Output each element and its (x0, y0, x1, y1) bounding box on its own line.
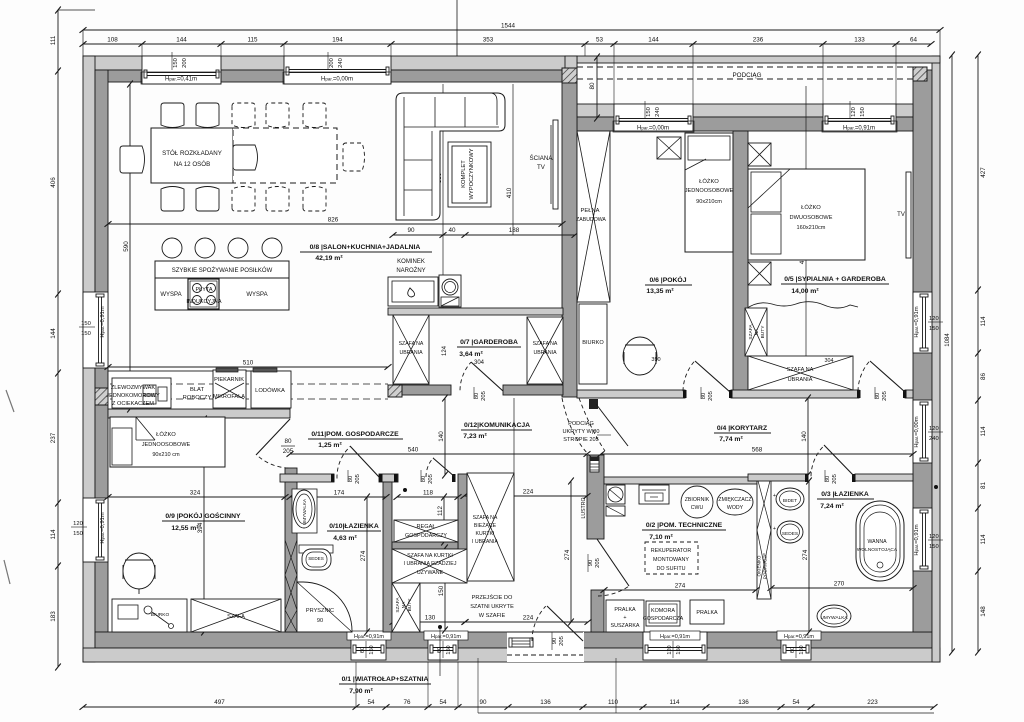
window 60/150 bottom wall wiatrolap, Hpar=0.91m (428, 632, 458, 660)
wall under rooms 0-6 and 0-5 (corridor north wall) left part (577, 390, 685, 398)
svg-text:112: 112 (437, 505, 444, 516)
svg-text:148: 148 (980, 606, 987, 617)
nightstands room 0/5 (748, 143, 771, 166)
roofed recess outline top-right (podcien) (577, 56, 940, 63)
svg-text:TV: TV (897, 212, 905, 218)
svg-text:NA: NA (754, 328, 760, 335)
garderoba 0/7 bottom wall left piece (402, 385, 451, 395)
dim 324 room 0/9 width (108, 496, 285, 498)
svg-text:12,55 m²: 12,55 m² (171, 525, 199, 532)
entrance door opening (507, 632, 584, 662)
sofa L-shaped (396, 93, 505, 220)
door 80/205 bathroom 0/3 (824, 445, 855, 477)
recuperator dashed box (645, 542, 698, 574)
svg-text:STROPIE 205: STROPIE 205 (563, 437, 598, 443)
svg-text:3,64 m²: 3,64 m² (459, 351, 483, 358)
svg-text:BIURKO: BIURKO (582, 340, 604, 346)
window 120/240 right wall korytarz, Hpar=0.00m (913, 400, 932, 463)
svg-text:GOSPODARCZA: GOSPODARCZA (643, 616, 684, 622)
svg-text:133: 133 (854, 37, 865, 44)
svg-text:150: 150 (173, 58, 179, 68)
svg-text:120: 120 (929, 426, 939, 432)
svg-text:64: 64 (910, 37, 918, 44)
wall 0/1 vs 0/2 lower part (591, 590, 604, 632)
svg-text:PEŁNA: PEŁNA (580, 208, 599, 214)
dim 274 wiatrolap height (570, 481, 572, 622)
svg-text:0/10|ŁAZIENKA: 0/10|ŁAZIENKA (329, 523, 379, 530)
svg-text:90: 90 (407, 227, 415, 234)
window 150/240 of room 0/6, Hpar=0.00m (614, 104, 693, 131)
svg-text:111: 111 (50, 35, 57, 45)
dim 80 of recess depth (596, 57, 598, 118)
svg-text:UBRANIA: UBRANIA (788, 377, 813, 383)
svg-text:PRALKA: PRALKA (614, 607, 636, 613)
svg-text:406: 406 (50, 177, 57, 188)
svg-text:205: 205 (481, 391, 487, 401)
svg-text:274: 274 (360, 550, 367, 561)
wardrobe left SZAFA NA UBRANIA 0/7 (393, 315, 429, 384)
svg-text:150: 150 (73, 531, 83, 537)
garderoba 0/7 bottom wall right piece (503, 385, 563, 395)
svg-text:114: 114 (980, 426, 987, 437)
svg-text:SUSZARKA: SUSZARKA (610, 623, 639, 629)
0/3 north wall left piece (748, 474, 808, 481)
tall wardrobe with hidden passage (467, 473, 514, 581)
svg-text:I UBRANIA RZADZIEJ: I UBRANIA RZADZIEJ (404, 561, 457, 567)
wardrobe SZAFA room 0/9 (191, 599, 281, 632)
svg-text:BUTY: BUTY (407, 598, 413, 612)
wall 0/9 vs 0/10 (285, 468, 297, 632)
svg-text:GOSPODARCZY: GOSPODARCZY (405, 533, 447, 539)
svg-text:114: 114 (669, 699, 680, 706)
garderoba 0/7 top wall (388, 308, 563, 315)
svg-text:0/5 |SYPIALNIA + GARDEROBA: 0/5 |SYPIALNIA + GARDEROBA (784, 276, 886, 283)
svg-text:JEDNOOSOBOWE: JEDNOOSOBOWE (685, 188, 734, 194)
svg-text:40: 40 (448, 227, 456, 234)
svg-text:81: 81 (980, 482, 987, 490)
svg-text:INDUKCYJNA: INDUKCYJNA (186, 299, 221, 305)
svg-text:150: 150 (929, 544, 939, 550)
exterior wall: bottom (dark band) (95, 632, 932, 648)
closet 0/11 bottom wall (392, 542, 458, 549)
built-in wardrobe PELNA ZABUDOWA (577, 131, 610, 302)
dim 130 wiatrolap (393, 621, 465, 623)
chair middle at table edge (233, 145, 258, 170)
svg-text:54: 54 (367, 699, 375, 706)
svg-text:W SZAFIE: W SZAFIE (479, 613, 506, 619)
svg-text:1084: 1084 (945, 333, 951, 347)
svg-text:0/8 |SALON+KUCHNIA+JADALNIA: 0/8 |SALON+KUCHNIA+JADALNIA (310, 244, 421, 251)
chairs top row (2 solid, 3 dashed) (161, 103, 184, 128)
entrance door leaf (547, 606, 583, 641)
dim 274 bathroom 0/3 height (808, 481, 810, 632)
svg-text:136: 136 (738, 699, 749, 706)
window 60/150 bottom wall bathroom 0/3, Hpar=0.91m (781, 632, 811, 660)
curtain garderoba 0/5 (746, 302, 858, 309)
kitchen island (155, 261, 289, 310)
svg-text:SZAFA NA: SZAFA NA (787, 367, 814, 373)
svg-text:LODÓWKA: LODÓWKA (255, 387, 285, 394)
office chair room 0/6 (623, 337, 657, 375)
svg-text:124: 124 (442, 345, 448, 356)
svg-text:497: 497 (214, 699, 225, 706)
svg-text:568: 568 (752, 447, 763, 454)
svg-text:MIKROFALA: MIKROFALA (213, 394, 245, 400)
window 150/200 top wall, Hpar=0.41m (142, 56, 221, 84)
washbasin UMYWALKA 0/3 (817, 605, 851, 627)
svg-text:ZBIORNIK: ZBIORNIK (685, 497, 710, 503)
svg-text:540: 540 (408, 447, 419, 454)
svg-text:80: 80 (348, 476, 354, 482)
svg-text:ŁÓŻKO: ŁÓŻKO (801, 204, 821, 211)
svg-text:ZMIĘKCZACZ: ZMIĘKCZACZ (718, 497, 751, 503)
svg-text:UBRANIA: UBRANIA (399, 350, 423, 356)
svg-text:150: 150 (799, 645, 805, 654)
svg-text:BUTY: BUTY (760, 325, 766, 339)
svg-text:304: 304 (825, 358, 834, 364)
door 80/205 closet 0/11 (433, 458, 455, 477)
exterior wall: left (dark band) (95, 70, 108, 632)
svg-text:120: 120 (667, 645, 673, 654)
svg-text:KOMPLET: KOMPLET (461, 160, 467, 188)
svg-text:205: 205 (559, 636, 565, 646)
door 90/205 pom. techniczne 0/2 (597, 539, 629, 586)
svg-text:BIURKO: BIURKO (151, 612, 170, 618)
svg-text:223: 223 (867, 699, 878, 706)
svg-text:4,63 m²: 4,63 m² (333, 535, 357, 542)
upper cabinets dashed (110, 383, 388, 385)
dim 174 room 0/10 width (290, 496, 386, 498)
svg-text:144: 144 (648, 37, 659, 44)
dim 826 living room width (108, 223, 562, 225)
exterior wall: right (dark band) (913, 70, 932, 632)
single bed room 0/6 (685, 133, 733, 252)
svg-text:274: 274 (802, 549, 809, 560)
svg-text:UBRANIA: UBRANIA (533, 350, 557, 356)
svg-text:SZATNI UKRYTE: SZATNI UKRYTE (470, 604, 514, 610)
svg-text:ŁÓŻKO: ŁÓŻKO (699, 178, 719, 185)
svg-text:WOLNOSTOJĄCA: WOLNOSTOJĄCA (857, 547, 898, 553)
svg-text:7,90 m²: 7,90 m² (349, 688, 373, 695)
wall under rooms (corridor north wall) middle part (731, 390, 859, 398)
top segmented dims (83, 43, 931, 45)
svg-text:390: 390 (651, 357, 660, 363)
0/3 north wall right piece (855, 474, 913, 481)
svg-text:194: 194 (332, 37, 343, 44)
svg-text:ROBOCZY: ROBOCZY (183, 395, 212, 401)
water softener ZMIEKCZACZ WODY (717, 489, 753, 515)
closet 0/11 right wall (458, 474, 467, 581)
plumbing shaft wall 0/2 vs 0/3 (757, 477, 771, 599)
dim 350 vertical sofa (442, 84, 444, 308)
svg-text:NA: NA (401, 601, 407, 608)
svg-text:+: + (623, 615, 626, 621)
svg-text:Z OCIEKACZEM: Z OCIEKACZEM (112, 401, 154, 407)
svg-text:MONTOWANY: MONTOWANY (653, 557, 689, 563)
chair left end (120, 146, 145, 173)
svg-text:427: 427 (980, 167, 987, 178)
svg-text:140: 140 (438, 431, 445, 442)
svg-text:PODCIĄG: PODCIĄG (568, 421, 594, 427)
svg-text:7,23 m²: 7,23 m² (463, 433, 487, 440)
svg-text:80: 80 (421, 476, 427, 482)
svg-text:BIEŻĄCE: BIEŻĄCE (474, 522, 497, 529)
svg-text:PRZEJŚCIE DO: PRZEJŚCIE DO (472, 593, 513, 601)
svg-text:240: 240 (929, 436, 939, 442)
wall under rooms (corridor north wall) right part (905, 390, 913, 398)
oven microwave column (213, 370, 246, 408)
chimney shaft at living/0-6 wall top (562, 68, 577, 83)
svg-text:+: + (773, 526, 776, 532)
svg-text:150: 150 (929, 326, 939, 332)
left edge stray marks (6, 390, 14, 412)
svg-text:224: 224 (523, 489, 534, 496)
sink unit (112, 378, 171, 408)
door 80/205 kitchen to guest room 0/9 (256, 419, 290, 455)
svg-text:80: 80 (284, 438, 292, 445)
svg-text:OKIENKO: OKIENKO (757, 555, 762, 576)
kitchen south wall (108, 409, 290, 418)
svg-text:150: 150 (438, 585, 445, 596)
svg-text:SZAFA: SZAFA (748, 324, 754, 340)
svg-text:90: 90 (552, 638, 558, 644)
island stools (162, 238, 182, 258)
svg-text:SZAFA NA: SZAFA NA (473, 515, 498, 521)
svg-text:90: 90 (479, 699, 487, 706)
exterior wall: top-left section (light band) (83, 56, 577, 70)
svg-text:SEDES: SEDES (782, 531, 798, 537)
svg-text:590: 590 (123, 241, 130, 252)
svg-text:205: 205 (708, 391, 714, 401)
svg-text:REKUPERATOR: REKUPERATOR (651, 548, 692, 554)
door 80/205 bathroom 0/10 (350, 446, 379, 477)
0/2 north wall (604, 477, 757, 484)
dim 354 szafa przejscie (513, 398, 515, 581)
svg-text:353: 353 (483, 37, 494, 44)
svg-text:54: 54 (792, 699, 800, 706)
exterior wall: top-left section (dark band) (95, 70, 577, 82)
svg-text:7,24 m²: 7,24 m² (820, 503, 844, 510)
svg-text:PODCIĄG: PODCIĄG (732, 72, 761, 79)
kitchen counter line (108, 371, 290, 409)
svg-text:144: 144 (50, 328, 57, 339)
induction hob on island (188, 279, 219, 309)
svg-text:SZAFA: SZAFA (395, 597, 401, 613)
window 120/150 right wall room 0/5, Hpar=0.91m (913, 292, 932, 353)
svg-text:1544: 1544 (501, 23, 516, 30)
wall 0/1 vs 0/2 pom. techniczne upper part (587, 455, 604, 539)
svg-text:7,10 m²: 7,10 m² (649, 534, 673, 541)
svg-text:304: 304 (474, 360, 485, 366)
svg-text:826: 826 (328, 217, 339, 224)
svg-text:KURTKI: KURTKI (476, 531, 495, 537)
svg-text:WYPOCZYNKOWY: WYPOCZYNKOWY (469, 148, 475, 199)
double bed room 0/5 (748, 169, 865, 260)
left dim column (57, 10, 59, 667)
svg-text:1,25 m²: 1,25 m² (318, 442, 342, 449)
chairs bottom row (2 solid, 3 dashed) (161, 187, 184, 212)
beam dashed lines PODCIAG (577, 66, 913, 68)
svg-text:PRYSZNIC: PRYSZNIC (306, 608, 334, 614)
svg-text:140: 140 (801, 431, 808, 442)
svg-text:90: 90 (317, 618, 323, 624)
window 120/150 of room 0/5, Hpar=0.91m (823, 104, 896, 131)
stove next to fireplace (439, 275, 461, 307)
fridge (251, 371, 291, 408)
svg-text:324: 324 (190, 490, 201, 497)
svg-text:200: 200 (329, 58, 335, 68)
svg-text:WODY: WODY (727, 505, 744, 511)
svg-text:240: 240 (338, 58, 344, 68)
washer dryer column PRALKA+SUSZARKA (606, 600, 644, 632)
chimney shaft in right wall top (913, 67, 927, 81)
nightstand room 0/6 (657, 137, 681, 159)
svg-text:120: 120 (929, 534, 939, 540)
right overall dim 1084 (951, 55, 953, 652)
door 80/205 garderoba 0/7 (471, 362, 503, 391)
svg-text:80: 80 (825, 476, 831, 482)
svg-text:120: 120 (929, 316, 939, 322)
svg-text:UŻYWANE: UŻYWANE (417, 569, 444, 576)
svg-text:PRALKA: PRALKA (696, 610, 718, 616)
svg-text:0/3 |ŁAZIENKA: 0/3 |ŁAZIENKA (821, 491, 869, 498)
svg-text:SZYBKIE SPOŻYWANIE POSIŁKÓW: SZYBKIE SPOŻYWANIE POSIŁKÓW (172, 267, 273, 274)
svg-text:0/2 |POM. TECHNICZNE: 0/2 |POM. TECHNICZNE (646, 522, 723, 529)
device box 0/2 (639, 485, 669, 504)
svg-text:13,35 m²: 13,35 m² (646, 288, 674, 295)
svg-text:STÓŁ ROZKŁADANY: STÓŁ ROZKŁADANY (162, 150, 222, 157)
svg-text:130: 130 (425, 615, 436, 622)
svg-text:120: 120 (851, 107, 857, 117)
interior wall living/room 0-6 divider (562, 83, 577, 397)
svg-text:410: 410 (506, 187, 513, 198)
svg-text:200: 200 (182, 58, 188, 68)
svg-text:510: 510 (243, 360, 254, 367)
svg-text:NA 12 OSÓB: NA 12 OSÓB (174, 161, 210, 168)
svg-text:76: 76 (403, 699, 411, 706)
svg-text:PIEKARNIK: PIEKARNIK (214, 377, 244, 383)
dim 274 pom techniczne width (604, 589, 756, 591)
svg-text:174: 174 (334, 490, 345, 497)
svg-text:+: + (773, 493, 776, 499)
svg-text:UMYWALKA: UMYWALKA (302, 498, 307, 525)
svg-text:150: 150 (446, 645, 452, 654)
svg-text:53: 53 (596, 37, 604, 44)
dining table extension dashed (233, 128, 337, 183)
entrance door swing arc inside (532, 606, 546, 641)
wall 0/10 vs 0/1 wiatrolap (383, 482, 392, 632)
svg-text:SZAFA: SZAFA (227, 614, 245, 620)
svg-text:150: 150 (81, 321, 91, 327)
corridor beam columns and swing (589, 399, 598, 409)
svg-text:80: 80 (875, 393, 881, 399)
svg-text:14,00 m²: 14,00 m² (791, 288, 819, 295)
dim 458 vertical room 0/5 (805, 86, 807, 390)
svg-text:SZAFA NA KURTKI: SZAFA NA KURTKI (407, 553, 453, 559)
washbasin UMYWALKA 0/10 (292, 489, 317, 533)
svg-text:ŚCIANA: ŚCIANA (529, 154, 553, 162)
shaft X-pattern in 0/9-0/10 wall (285, 540, 297, 575)
dim 568 corridor 0/4 (601, 453, 913, 455)
window 120/150 left wall, Hpar=0.91m (83, 498, 108, 562)
dim 112 closet 0/11 height (443, 497, 445, 542)
svg-text:150: 150 (81, 331, 91, 337)
svg-text:136: 136 (540, 699, 551, 706)
window 120/150 right wall bathroom 0/3, Hpar=0.91m (913, 508, 932, 571)
freestanding bathtub WANNA WOLNOSTOJACA (856, 501, 904, 581)
svg-text:150: 150 (369, 645, 375, 654)
svg-text:NAROŻNY: NAROŻNY (396, 267, 425, 274)
svg-text:PODAWCZE: PODAWCZE (763, 553, 768, 579)
window 200/240 terrace door top wall, Hpar=0.00m (284, 56, 391, 84)
exterior wall: top of bedrooms section (dark band) (577, 117, 913, 131)
svg-text:274: 274 (675, 583, 686, 590)
svg-text:114: 114 (980, 316, 987, 327)
svg-text:60: 60 (790, 647, 796, 653)
svg-text:205: 205 (882, 391, 888, 401)
svg-text:108: 108 (107, 37, 118, 44)
svg-text:JEDNOKOMOROWY: JEDNOKOMOROWY (106, 393, 160, 399)
svg-text:115: 115 (247, 37, 258, 44)
hatched shaft at garderoba wall west end (388, 385, 402, 397)
dim 590 vertical kitchen (129, 84, 131, 409)
svg-text:UKRYTY W|80: UKRYTY W|80 (563, 429, 600, 435)
svg-text:80: 80 (474, 393, 480, 399)
dim 394 room 0/9 height (203, 419, 205, 632)
exterior wall: right (light band) (932, 56, 940, 662)
dim 118 closet 0/11 width (397, 496, 458, 498)
svg-text:KOMINEK: KOMINEK (397, 259, 425, 265)
svg-text:90x210 cm: 90x210 cm (152, 452, 180, 458)
svg-text:160x210cm: 160x210cm (797, 225, 826, 231)
dim 90/40/188 sofa (393, 234, 575, 236)
wardrobe 0/5 SZAFA NA UBRANIA (748, 356, 853, 390)
shower PRYSZNIC 90 (297, 582, 352, 632)
wall piece between 0/10 and 0/11 doors (379, 474, 398, 482)
svg-text:270: 270 (834, 581, 845, 588)
dim 510 kitchen counter (108, 366, 388, 368)
svg-text:150: 150 (676, 645, 682, 654)
desk BIURKO room 0/9 (112, 599, 187, 632)
small wall caps black (729, 390, 733, 398)
svg-text:240: 240 (655, 107, 661, 117)
svg-text:90: 90 (588, 560, 594, 566)
washer with cross 0/2 (606, 485, 625, 504)
coffee table KOMPLET WYPOCZYNKOWY (448, 142, 491, 207)
svg-text:REGAŁ: REGAŁ (417, 524, 436, 530)
svg-text:BIDET: BIDET (783, 498, 797, 504)
svg-text:0/11|POM. GOSPODARCZE: 0/11|POM. GOSPODARCZE (311, 431, 399, 438)
radiator symbol (590, 457, 599, 472)
svg-text:205: 205 (832, 474, 838, 484)
svg-text:LUSTRO: LUSTRO (581, 497, 587, 518)
svg-text:0/7 |GARDEROBA: 0/7 |GARDEROBA (460, 339, 518, 346)
svg-text:DWUOSOBOWE: DWUOSOBOWE (790, 215, 833, 221)
svg-text:90x210cm: 90x210cm (696, 199, 722, 205)
svg-text:I UBRANIA: I UBRANIA (472, 539, 498, 545)
svg-text:60: 60 (360, 647, 366, 653)
svg-text:54: 54 (439, 699, 447, 706)
svg-text:205: 205 (428, 474, 434, 484)
survey leader line top (456, 0, 458, 56)
svg-text:SZAFA NA: SZAFA NA (399, 341, 424, 347)
svg-text:ŁÓŻKO: ŁÓŻKO (156, 431, 176, 438)
svg-text:TV: TV (537, 164, 546, 171)
svg-text:188: 188 (509, 227, 520, 234)
svg-text:KOMORA: KOMORA (651, 608, 675, 614)
svg-text:150: 150 (646, 107, 652, 117)
overall top dim 1544 (83, 29, 940, 31)
